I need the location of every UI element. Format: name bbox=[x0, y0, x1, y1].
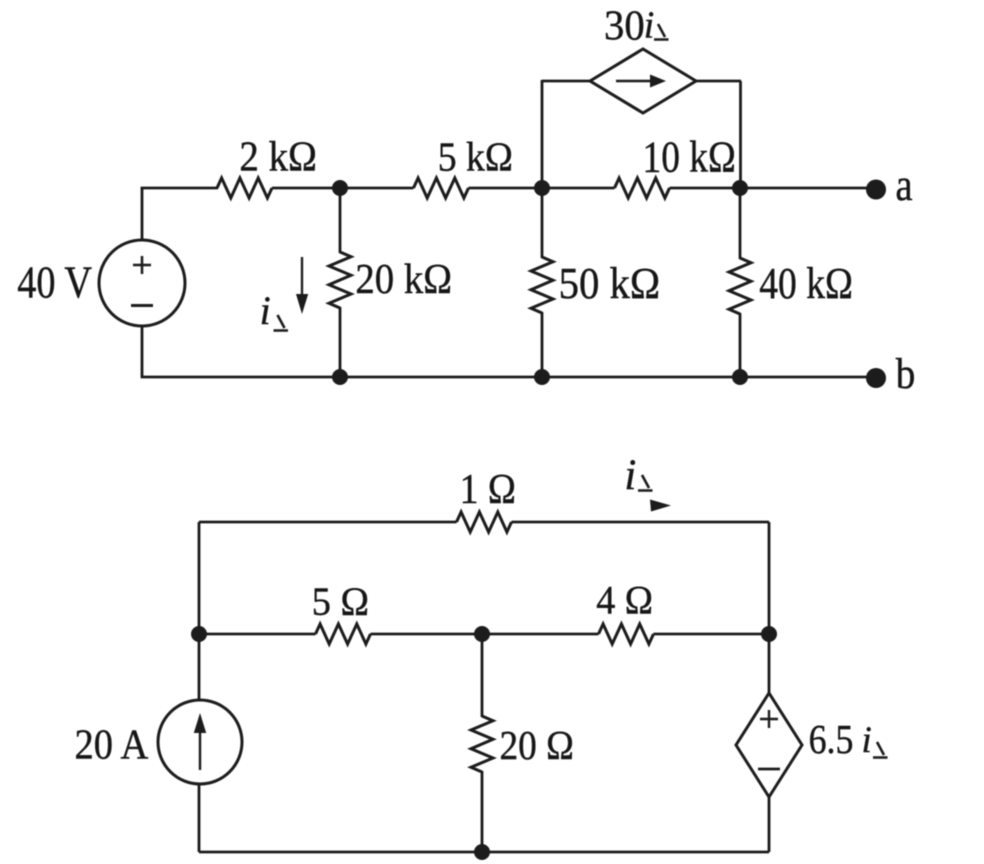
svg-text:4 Ω: 4 Ω bbox=[596, 579, 653, 623]
dependent voltage source 6.5 i-delta (diamond with plus minus) bbox=[736, 693, 802, 797]
wire 50k resistor to bottom rail bbox=[541, 312, 544, 377]
node junction dot (left middle) bbox=[191, 626, 207, 642]
svg-text:2 kΩ: 2 kΩ bbox=[239, 133, 317, 180]
wire left node down to 20A source bbox=[198, 634, 201, 701]
node junction dot (center middle) bbox=[474, 626, 490, 642]
svg-text:5 Ω: 5 Ω bbox=[312, 580, 369, 624]
node junction dot (bottom rail center) bbox=[474, 844, 490, 860]
wire node3 to terminal a bbox=[740, 187, 870, 190]
svg-text:6.5: 6.5 bbox=[809, 718, 854, 763]
svg-text:i: i bbox=[862, 720, 872, 761]
resistor 5 kOhm bbox=[414, 178, 469, 198]
wire 40k resistor to bottom rail bbox=[739, 313, 742, 377]
voltage source 40 V bbox=[99, 240, 185, 326]
wire top rail: source to 2k resistor bbox=[141, 187, 218, 190]
current source 20 A (circle with up arrow) bbox=[158, 700, 242, 784]
branch 20 kOhm: wire from node1 down bbox=[339, 188, 342, 253]
wire 4 Ohm resistor to right node bbox=[654, 633, 770, 636]
wire from 40V source bottom to bottom rail bbox=[141, 325, 144, 377]
wire node2 up to dependent current source bbox=[541, 80, 544, 188]
resistor 20 Ohm bbox=[471, 716, 493, 772]
wire middle rail: left node to 5 Ohm bbox=[199, 633, 316, 636]
wire diamond right vertex to corner bbox=[696, 80, 741, 83]
wire dependent source to bottom rail bbox=[768, 797, 771, 852]
svg-text:40 V: 40 V bbox=[17, 257, 92, 308]
resistor 4 Ohm bbox=[599, 624, 654, 644]
node junction dot (50k bottom) bbox=[534, 369, 550, 385]
current direction arrow for i-delta bbox=[650, 500, 671, 512]
svg-text:20 kΩ: 20 kΩ bbox=[355, 256, 452, 303]
node junction dot (20k top) bbox=[332, 180, 348, 196]
wire corner down to node3 bbox=[739, 81, 742, 188]
node junction dot (20k bottom) bbox=[332, 369, 348, 385]
wire bottom-circuit top rail right bbox=[512, 521, 770, 524]
wire 2k resistor to node1 bbox=[272, 187, 340, 190]
resistor 2 kOhm bbox=[217, 178, 272, 198]
wire bottom-circuit bottom rail bbox=[199, 851, 769, 854]
node junction dot (40k top) bbox=[732, 180, 748, 196]
wire 5k resistor to node2 bbox=[469, 187, 543, 190]
svg-text:i: i bbox=[644, 5, 655, 47]
wire right node down to dependent voltage source bbox=[768, 634, 771, 694]
label i-delta (top circuit) bbox=[260, 288, 288, 333]
svg-text:a: a bbox=[896, 161, 913, 210]
wire 20k resistor to bottom rail bbox=[339, 307, 342, 377]
label i-delta (bottom circuit) bbox=[624, 452, 652, 499]
svg-text:20 Ω: 20 Ω bbox=[500, 723, 574, 768]
label 6.5 i-delta bbox=[809, 718, 888, 763]
resistor 5 Ohm bbox=[316, 624, 371, 644]
svg-text:1 Ω: 1 Ω bbox=[460, 465, 516, 512]
wire 5 Ohm resistor to center node bbox=[371, 633, 483, 636]
branch 40 kOhm: wire from node3 down bbox=[739, 188, 742, 259]
svg-text:i: i bbox=[624, 452, 636, 499]
resistor 1 Ohm bbox=[457, 512, 512, 532]
wire 20 Ohm resistor to bottom rail bbox=[481, 771, 484, 852]
branch 50 kOhm: wire from node2 down bbox=[541, 188, 544, 258]
svg-text:i: i bbox=[260, 288, 271, 333]
wire to diamond left vertex bbox=[542, 80, 590, 83]
wire left rail top segment bbox=[198, 522, 201, 634]
dependent current source 30 i-delta (diamond with arrow) bbox=[590, 49, 696, 113]
wire bottom rail of top circuit bbox=[141, 376, 870, 379]
terminal b dot bbox=[866, 368, 886, 388]
wire node1 to 5k resistor bbox=[340, 187, 414, 190]
resistor 10 kOhm bbox=[615, 178, 670, 198]
terminal a dot bbox=[866, 180, 886, 200]
wire from 40V source top to top rail bbox=[141, 187, 144, 241]
svg-text:20 A: 20 A bbox=[75, 721, 149, 768]
node junction dot (right middle) bbox=[761, 626, 777, 642]
resistor 50 kOhm bbox=[531, 257, 553, 313]
node junction dot (50k top) bbox=[534, 180, 550, 196]
wire 10k resistor to node3 bbox=[670, 187, 741, 190]
resistor 20 kOhm bbox=[329, 252, 351, 308]
resistor 40 kOhm bbox=[729, 258, 751, 314]
svg-text:40 kΩ: 40 kΩ bbox=[759, 259, 853, 307]
current arrow i-delta pointing down bbox=[296, 257, 308, 314]
wire node2 to 10k resistor bbox=[542, 187, 615, 190]
branch 20 Ohm: wire from center node down bbox=[481, 634, 484, 717]
node junction dot (40k bottom) bbox=[732, 369, 748, 385]
svg-text:30: 30 bbox=[604, 2, 645, 49]
wire bottom-circuit top rail left bbox=[199, 521, 457, 524]
svg-text:10 kΩ: 10 kΩ bbox=[643, 133, 736, 181]
label 30 i-delta bbox=[604, 2, 669, 49]
wire 20A source to bottom rail bbox=[198, 784, 201, 852]
wire center node to 4 Ohm bbox=[482, 633, 599, 636]
wire right rail top segment bbox=[768, 522, 771, 634]
svg-text:b: b bbox=[896, 349, 916, 397]
svg-text:50 kΩ: 50 kΩ bbox=[559, 260, 661, 309]
svg-text:5 kΩ: 5 kΩ bbox=[438, 134, 513, 180]
